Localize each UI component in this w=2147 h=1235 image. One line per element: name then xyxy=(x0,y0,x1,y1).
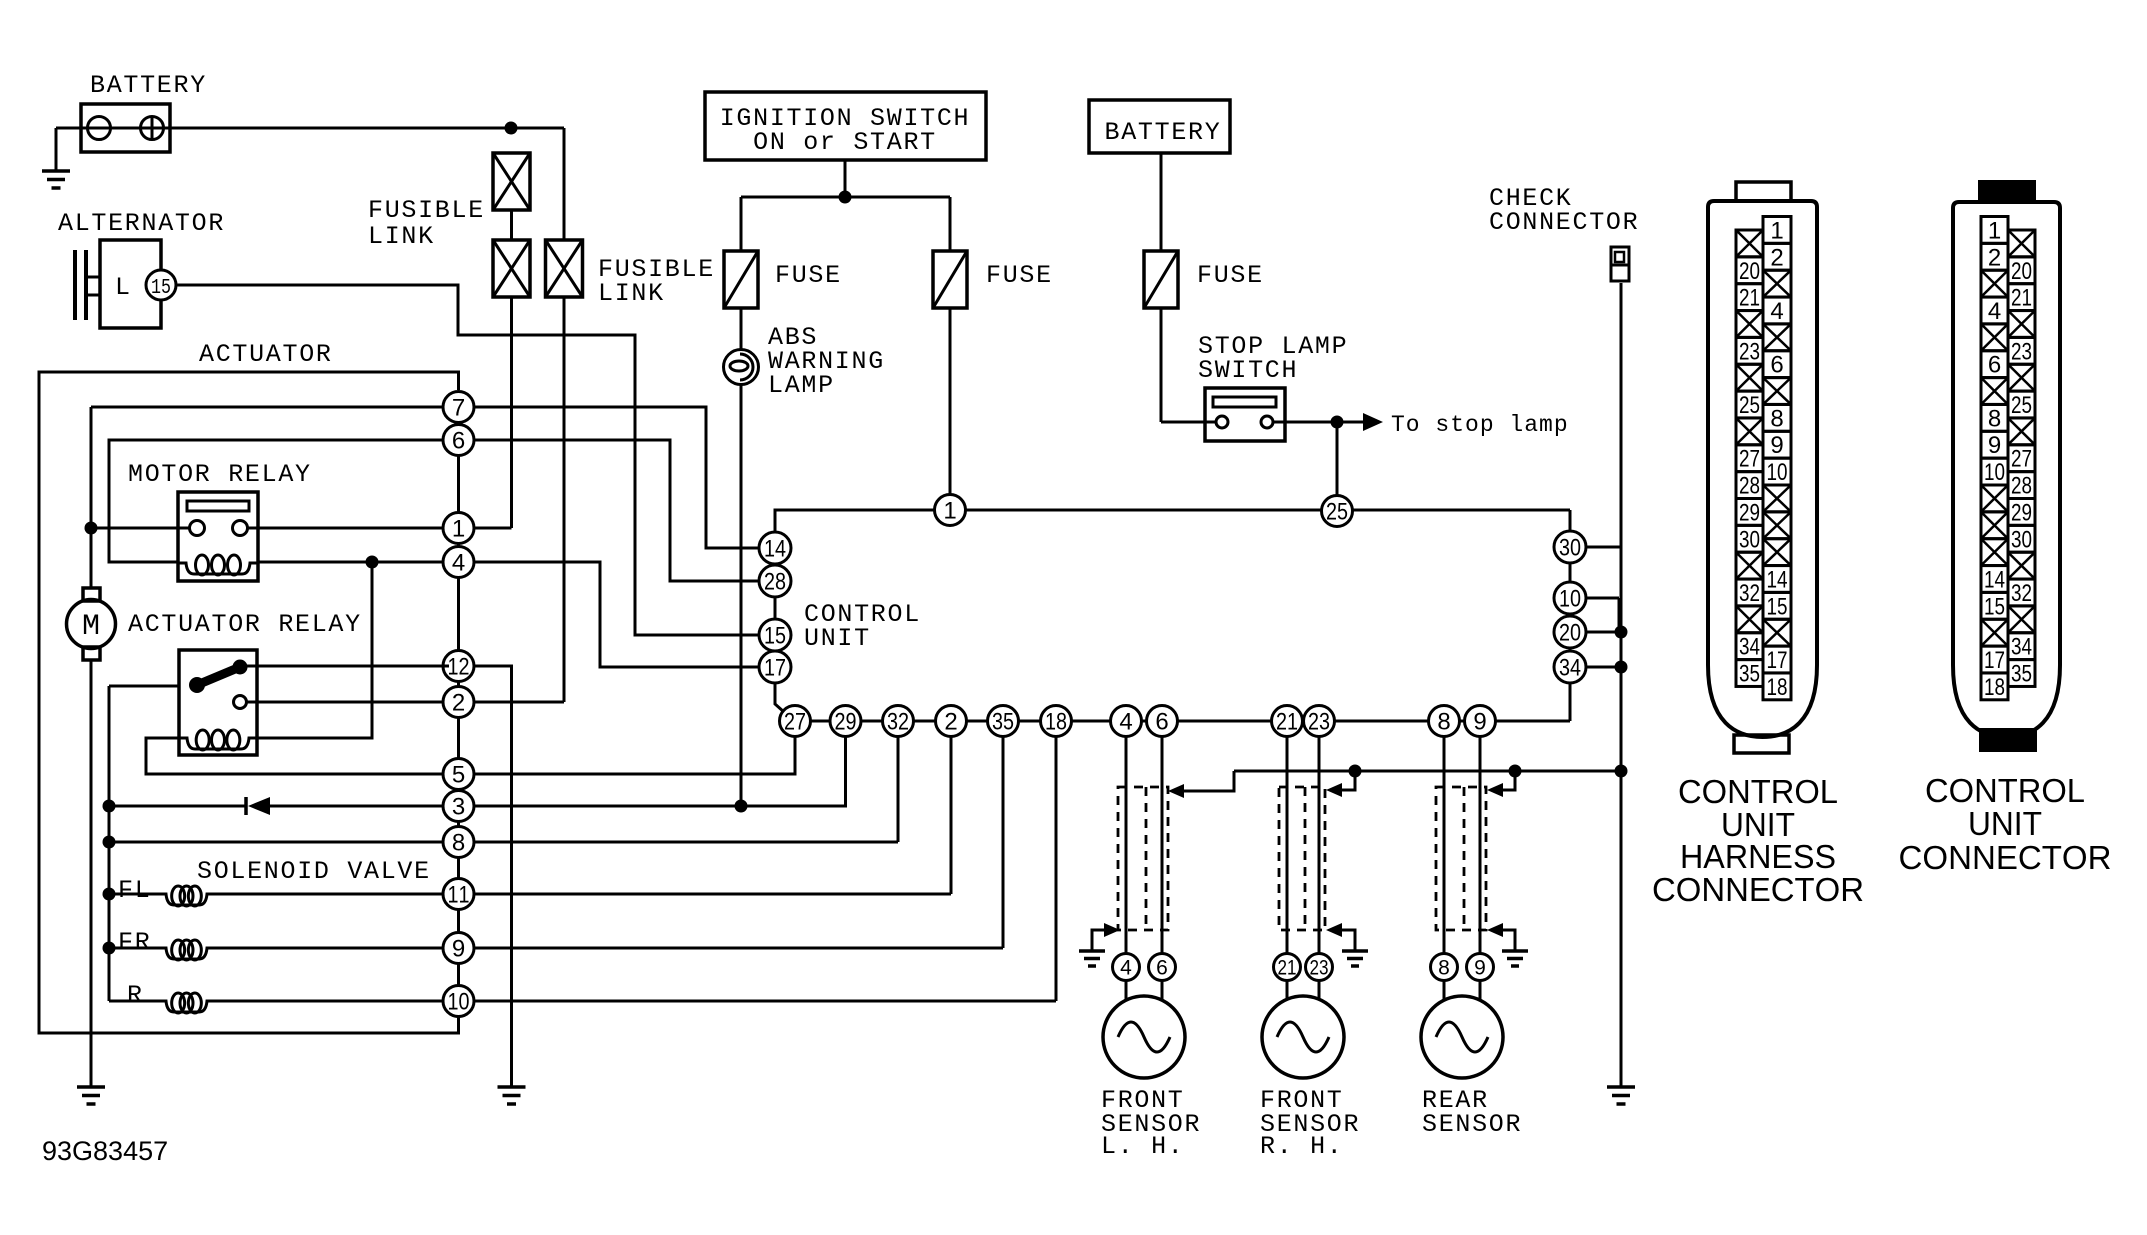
svg-text:FR: FR xyxy=(118,928,151,957)
svg-text:14: 14 xyxy=(1984,566,2005,593)
svg-text:23: 23 xyxy=(1739,338,1760,365)
svg-text:4: 4 xyxy=(1988,298,2001,325)
svg-text:HARNESS: HARNESS xyxy=(1680,838,1836,875)
svg-text:1: 1 xyxy=(452,516,465,543)
svg-text:23: 23 xyxy=(1310,957,1329,980)
svg-text:10: 10 xyxy=(1767,459,1788,486)
svg-text:15: 15 xyxy=(1984,593,2005,620)
svg-text:21: 21 xyxy=(2011,285,2032,312)
svg-text:6: 6 xyxy=(1156,957,1168,980)
svg-text:L. H.: L. H. xyxy=(1101,1132,1185,1161)
svg-text:17: 17 xyxy=(1767,647,1788,674)
svg-text:LINK: LINK xyxy=(598,279,665,308)
svg-text:35: 35 xyxy=(992,709,1014,736)
svg-text:LINK: LINK xyxy=(368,222,435,251)
svg-text:32: 32 xyxy=(1739,580,1760,607)
svg-text:7: 7 xyxy=(452,395,465,422)
svg-text:8: 8 xyxy=(452,830,465,857)
svg-text:6: 6 xyxy=(1155,709,1168,736)
svg-text:6: 6 xyxy=(1770,352,1783,379)
svg-text:17: 17 xyxy=(1984,647,2005,674)
svg-text:2: 2 xyxy=(1988,244,2001,271)
svg-text:25: 25 xyxy=(1326,499,1348,526)
svg-text:93G83457: 93G83457 xyxy=(42,1136,168,1166)
svg-text:4: 4 xyxy=(452,550,465,577)
svg-text:FUSE: FUSE xyxy=(775,261,842,290)
svg-text:34: 34 xyxy=(1559,655,1581,682)
svg-text:21: 21 xyxy=(1276,709,1298,736)
svg-text:ACTUATOR RELAY: ACTUATOR RELAY xyxy=(128,610,362,639)
svg-text:29: 29 xyxy=(835,709,857,736)
svg-text:15: 15 xyxy=(764,623,786,650)
svg-text:To stop lamp: To stop lamp xyxy=(1391,412,1569,438)
svg-text:34: 34 xyxy=(1739,634,1760,661)
svg-text:25: 25 xyxy=(1739,392,1760,419)
svg-text:4: 4 xyxy=(1119,709,1132,736)
svg-text:15: 15 xyxy=(1767,593,1788,620)
svg-text:2: 2 xyxy=(944,709,957,736)
svg-text:27: 27 xyxy=(1739,446,1760,473)
svg-text:9: 9 xyxy=(1473,709,1486,736)
svg-text:2: 2 xyxy=(1770,244,1783,271)
svg-text:SOLENOID VALVE: SOLENOID VALVE xyxy=(197,857,431,886)
svg-text:28: 28 xyxy=(2011,473,2032,500)
svg-text:8: 8 xyxy=(1988,405,2001,432)
svg-text:SENSOR: SENSOR xyxy=(1422,1110,1522,1139)
svg-text:FUSIBLE: FUSIBLE xyxy=(368,196,485,225)
svg-text:20: 20 xyxy=(2011,258,2032,285)
svg-text:BATTERY: BATTERY xyxy=(90,71,207,100)
svg-text:17: 17 xyxy=(764,655,786,682)
svg-text:SWITCH: SWITCH xyxy=(1198,356,1298,385)
svg-text:25: 25 xyxy=(2011,392,2032,419)
svg-text:9: 9 xyxy=(1988,432,2001,459)
svg-text:18: 18 xyxy=(1045,709,1067,736)
svg-text:30: 30 xyxy=(2011,526,2032,553)
svg-text:CONNECTOR: CONNECTOR xyxy=(1489,208,1639,237)
svg-text:FL: FL xyxy=(118,876,151,905)
svg-text:R. H.: R. H. xyxy=(1260,1132,1344,1161)
svg-text:20: 20 xyxy=(1739,258,1760,285)
svg-text:29: 29 xyxy=(1739,499,1760,526)
svg-text:2: 2 xyxy=(452,690,465,717)
svg-text:3: 3 xyxy=(452,794,465,821)
svg-text:9: 9 xyxy=(1474,957,1486,980)
svg-text:23: 23 xyxy=(2011,338,2032,365)
svg-text:1: 1 xyxy=(1770,217,1783,244)
svg-text:CONNECTOR: CONNECTOR xyxy=(1652,871,1864,908)
svg-text:4: 4 xyxy=(1770,298,1783,325)
svg-text:LAMP: LAMP xyxy=(768,371,835,400)
svg-text:28: 28 xyxy=(1739,473,1760,500)
svg-text:1: 1 xyxy=(943,498,956,525)
svg-text:18: 18 xyxy=(1767,674,1788,701)
svg-text:14: 14 xyxy=(764,536,786,563)
svg-text:MOTOR RELAY: MOTOR RELAY xyxy=(128,460,312,489)
svg-text:34: 34 xyxy=(2011,634,2032,661)
svg-text:29: 29 xyxy=(2011,499,2032,526)
svg-text:27: 27 xyxy=(784,709,806,736)
svg-text:30: 30 xyxy=(1739,526,1760,553)
svg-text:10: 10 xyxy=(448,989,470,1016)
svg-text:21: 21 xyxy=(1739,285,1760,312)
svg-text:12: 12 xyxy=(448,654,470,681)
svg-text:18: 18 xyxy=(1984,674,2005,701)
svg-text:28: 28 xyxy=(764,569,786,596)
svg-text:35: 35 xyxy=(1739,661,1760,688)
svg-text:8: 8 xyxy=(1770,405,1783,432)
svg-text:CONTROL: CONTROL xyxy=(1925,772,2085,809)
svg-text:ALTERNATOR: ALTERNATOR xyxy=(58,209,225,238)
svg-text:15: 15 xyxy=(151,277,171,300)
svg-text:1: 1 xyxy=(1988,217,2001,244)
svg-text:CONNECTOR: CONNECTOR xyxy=(1899,839,2112,876)
svg-text:BATTERY: BATTERY xyxy=(1105,118,1222,147)
svg-text:5: 5 xyxy=(452,762,465,789)
svg-text:UNIT: UNIT xyxy=(804,624,871,653)
svg-text:L: L xyxy=(115,273,132,302)
svg-text:20: 20 xyxy=(1559,620,1581,647)
svg-text:6: 6 xyxy=(1988,352,2001,379)
svg-text:30: 30 xyxy=(1559,535,1581,562)
svg-text:8: 8 xyxy=(1438,957,1450,980)
svg-text:9: 9 xyxy=(452,936,465,963)
svg-text:CONTROL: CONTROL xyxy=(1678,773,1838,810)
svg-text:27: 27 xyxy=(2011,446,2032,473)
svg-text:11: 11 xyxy=(448,882,470,909)
svg-text:R: R xyxy=(127,981,144,1010)
svg-text:ACTUATOR: ACTUATOR xyxy=(199,340,333,369)
svg-text:FUSE: FUSE xyxy=(986,261,1053,290)
svg-text:8: 8 xyxy=(1437,709,1450,736)
svg-text:14: 14 xyxy=(1767,566,1788,593)
svg-text:10: 10 xyxy=(1559,586,1581,613)
svg-text:10: 10 xyxy=(1984,459,2005,486)
svg-text:4: 4 xyxy=(1120,957,1132,980)
svg-text:6: 6 xyxy=(452,428,465,455)
svg-text:9: 9 xyxy=(1770,432,1783,459)
svg-text:FUSE: FUSE xyxy=(1197,261,1264,290)
svg-text:UNIT: UNIT xyxy=(1968,805,2042,842)
svg-text:23: 23 xyxy=(1308,709,1330,736)
svg-text:32: 32 xyxy=(887,709,909,736)
svg-text:35: 35 xyxy=(2011,661,2032,688)
svg-text:M: M xyxy=(82,610,100,644)
svg-text:32: 32 xyxy=(2011,580,2032,607)
svg-text:21: 21 xyxy=(1278,957,1297,980)
svg-text:ON or START: ON or START xyxy=(753,128,937,157)
